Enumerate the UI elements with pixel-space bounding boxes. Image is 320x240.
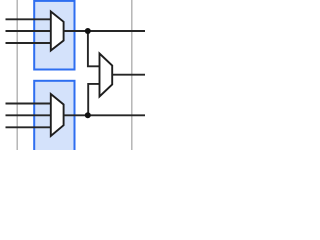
wire: mux U3 output — [112, 74, 145, 76]
wire: bottom mux input B — [6, 114, 51, 116]
wire: branch from bottom output up to mux U3 input 1 — [88, 84, 99, 115]
left guide rail — [16, 0, 18, 150]
right guide rail — [131, 0, 133, 150]
wire: top mux input C — [6, 42, 51, 44]
instance box U1 (top mux block) — [34, 1, 74, 70]
wire: branch from top output down to mux U3 input 0 — [88, 31, 100, 66]
junction node on bottom output — [85, 112, 91, 118]
mux U3 (middle trapezoid) — [100, 54, 113, 97]
wire: bottom mux input A — [6, 103, 51, 105]
junction node on top output — [85, 28, 91, 34]
mux U1 (top trapezoid) — [51, 12, 64, 51]
mux U2 (bottom trapezoid) — [51, 94, 64, 136]
wire: top mux output — [64, 30, 145, 32]
wire: bottom mux output — [64, 114, 145, 116]
wire: top mux input A — [6, 18, 51, 20]
wire: top mux input B — [6, 30, 51, 32]
instance box U2 (bottom mux block, clipped at bottom) — [34, 81, 74, 153]
wire: bottom mux input C — [6, 126, 51, 128]
